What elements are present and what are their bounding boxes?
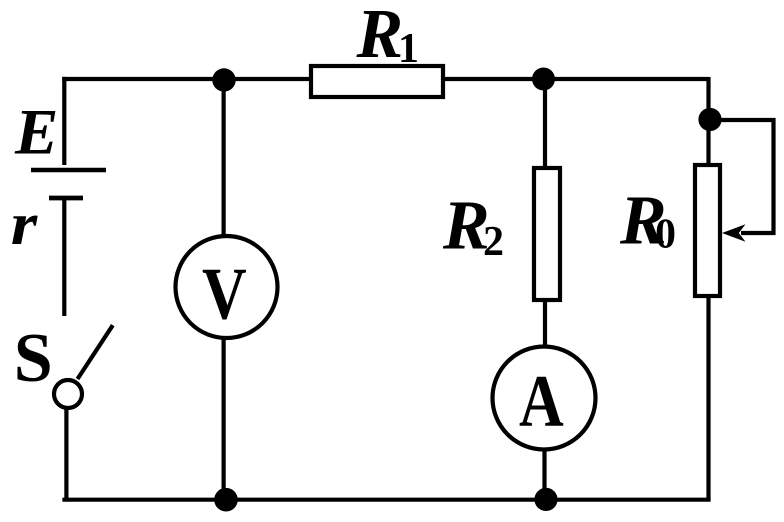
ammeter U2 circle <box>493 347 596 450</box>
wire R2 branch upper <box>543 79 547 168</box>
svg-text:S: S <box>14 320 53 397</box>
wire voltmeter branch lower <box>222 336 226 499</box>
voltmeter U1 circle <box>176 236 278 338</box>
wiper arrow head pointing into R0 <box>722 224 746 241</box>
wire left vertical (top corner down to battery + plate) <box>62 77 66 165</box>
wire right vertical upper (top corner to R0) <box>706 77 710 165</box>
wire ammeter to bottom <box>542 448 546 499</box>
svg-text:E: E <box>14 97 58 169</box>
wire switch to bottom-left corner <box>64 408 68 500</box>
wire bottom horizontal <box>62 498 710 502</box>
wire R0 to bottom-right corner <box>706 296 710 500</box>
svg-text:A: A <box>519 360 564 442</box>
switch S lever arm <box>78 325 113 379</box>
rheostat R0 box <box>695 165 720 296</box>
wire top-right horizontal (R1 right lead to right corner) <box>443 77 709 81</box>
battery r short plate (-) <box>49 196 83 201</box>
node junction dot top (voltmeter tap) <box>212 68 235 91</box>
wire wiper loop: node to right and down <box>710 120 774 233</box>
svg-text:R: R <box>356 0 404 73</box>
svg-text:r: r <box>11 191 38 257</box>
wire battery minus down to switch lever <box>62 198 66 316</box>
node junction dot bottom (ammeter) <box>534 488 557 511</box>
wire R2 to ammeter <box>543 300 547 348</box>
wire voltmeter branch upper <box>222 80 226 238</box>
battery E long plate (+) <box>31 168 106 173</box>
svg-text:2: 2 <box>483 219 504 265</box>
node junction dot bottom (voltmeter) <box>214 488 238 512</box>
resistor R1 box <box>311 66 443 97</box>
svg-text:V: V <box>202 254 247 336</box>
switch S contact circle <box>54 380 82 408</box>
wire top-left horizontal (battery node to R1 left lead) <box>62 77 311 81</box>
resistor R2 box <box>534 168 560 300</box>
svg-text:0: 0 <box>655 212 676 258</box>
node junction dot right (R0 wiper node) <box>698 108 721 131</box>
node junction dot top (R2 tap) <box>532 68 555 91</box>
svg-text:1: 1 <box>398 26 419 72</box>
